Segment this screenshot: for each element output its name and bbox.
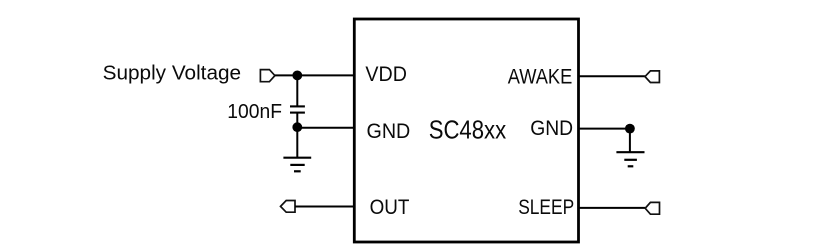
svg-text:AWAKE: AWAKE — [508, 65, 573, 88]
ground symbol (right) — [616, 152, 644, 166]
svg-text:SLEEP: SLEEP — [518, 196, 574, 219]
wire GND pin — [297, 127, 354, 129]
svg-text:VDD: VDD — [365, 63, 407, 86]
ground symbol (left) — [283, 158, 311, 172]
junction dot GND node (left) — [292, 122, 302, 132]
wire OUT — [295, 206, 354, 208]
connector SLEEP — [645, 202, 659, 214]
wire GND node down to ground (right) — [629, 129, 631, 153]
connector AWAKE — [645, 71, 659, 83]
wire AWAKE — [579, 75, 646, 77]
wire VDD — [275, 74, 354, 76]
capacitor C1 — [290, 106, 305, 112]
svg-text:Supply Voltage: Supply Voltage — [103, 61, 242, 84]
svg-text:GND: GND — [530, 117, 573, 140]
junction dot GND node (right) — [625, 124, 635, 134]
wire VDD node to capacitor top — [296, 75, 298, 105]
svg-text:OUT: OUT — [370, 196, 410, 219]
junction dot VDD node — [292, 71, 302, 81]
IC U1 body — [354, 19, 578, 242]
connector J1 Supply Voltage input — [260, 70, 275, 82]
wire GND (right) — [579, 128, 630, 130]
wire SLEEP — [579, 207, 646, 209]
svg-text:GND: GND — [367, 120, 411, 143]
svg-text:SC48xx: SC48xx — [429, 115, 507, 145]
svg-text:100nF: 100nF — [227, 101, 282, 123]
wire capacitor bottom to ground — [296, 113, 298, 158]
connector OUT — [281, 201, 296, 213]
